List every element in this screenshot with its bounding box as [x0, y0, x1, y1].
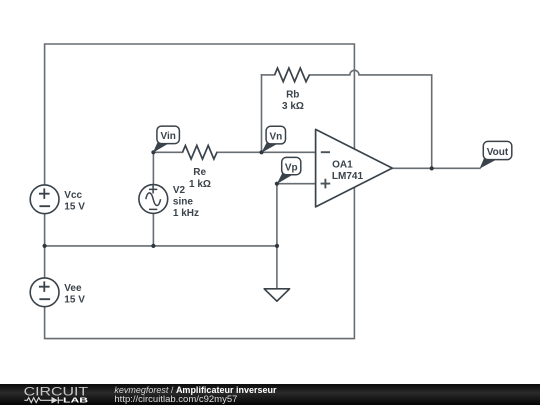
node flag Vin — [153, 126, 180, 153]
wire: Vn node up to Rb — [261, 75, 263, 152]
junction dot: V2 bottom on ground rail — [151, 244, 155, 248]
voltage source V3 Vee — [30, 278, 59, 307]
junction dot: Vn node — [259, 150, 263, 154]
wire: Vp node to op-amp non-inverting input — [277, 183, 316, 185]
junction dot: left rail / ground rail — [43, 244, 47, 248]
svg-text:Vn: Vn — [269, 131, 282, 142]
wire: Vp node down to ground symbol — [276, 184, 278, 289]
sine voltage source V2 — [139, 185, 168, 214]
junction dot: Vin node — [151, 150, 155, 154]
svg-text:Vp: Vp — [285, 162, 298, 173]
svg-text:V2: V2 — [173, 185, 186, 196]
svg-text:3 kΩ: 3 kΩ — [282, 101, 304, 112]
junction dot: output / feedback node — [430, 166, 434, 170]
wire: op-amp output to Vout — [392, 167, 480, 169]
node flag Vp — [277, 157, 301, 184]
svg-text:OA1: OA1 — [332, 160, 353, 171]
svg-text:15 V: 15 V — [64, 202, 85, 213]
svg-text:Vcc: Vcc — [64, 190, 82, 201]
svg-text:1 kΩ: 1 kΩ — [189, 179, 211, 190]
voltage source V1 Vcc — [30, 185, 59, 214]
wire: Rb left lead — [262, 74, 275, 76]
junction dot: Vp node — [275, 182, 279, 186]
svg-text:Rb: Rb — [286, 90, 299, 101]
svg-text:sine: sine — [173, 197, 193, 208]
logo diode symbol — [48, 397, 64, 404]
resistor Rb — [275, 68, 310, 82]
svg-text:15 V: 15 V — [64, 295, 85, 306]
op-amp OA1 LM741 — [316, 129, 393, 207]
svg-text:Vin: Vin — [160, 131, 175, 142]
wire: outer supply loop (top rail, right rail, bottom rail, left rail) — [45, 44, 355, 339]
wire: Re right lead to op-amp inverting input — [217, 151, 316, 153]
svg-text:http://circuitlab.com/c92my57: http://circuitlab.com/c92my57 — [114, 394, 237, 405]
wire: middle ground rail — [45, 245, 277, 247]
svg-text:LM741: LM741 — [332, 171, 364, 182]
svg-text:Re: Re — [193, 167, 206, 178]
resistor Re — [183, 146, 217, 160]
svg-text:Vout: Vout — [487, 147, 509, 158]
wire: Vin node to Re left lead — [153, 151, 182, 153]
svg-text:Vee: Vee — [64, 283, 82, 294]
wire: V2 branch vertical (Vin node down to ground rail) — [152, 152, 154, 246]
logo resistor squiggle — [24, 398, 47, 403]
svg-text:LAB: LAB — [63, 395, 89, 404]
junction dot: ground branch on ground rail — [275, 244, 279, 248]
svg-text:1 kHz: 1 kHz — [173, 208, 199, 219]
node flag Vout — [480, 141, 512, 168]
footer bar — [0, 384, 540, 405]
ground symbol — [264, 289, 289, 301]
wire: Rb right lead with hop over supply rail, down to output node — [309, 70, 431, 168]
node flag Vn — [261, 126, 285, 152]
